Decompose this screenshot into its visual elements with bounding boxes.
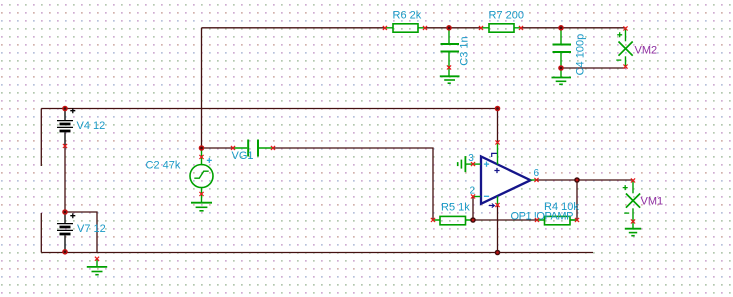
pin mark ground x=97 xyxy=(95,257,99,261)
pin mark R7 left xyxy=(479,26,483,30)
ground under VG1 xyxy=(191,194,212,211)
pin mark R6 left xyxy=(383,26,387,30)
junction node V4 plus xyxy=(62,106,68,112)
pin mark VM1 minus xyxy=(631,219,635,223)
wire main rail y=108.5 xyxy=(41,108,497,110)
wire C2 input y=148 xyxy=(202,147,234,149)
wire inverting input xyxy=(472,197,474,221)
svg-text:V4 12: V4 12 xyxy=(77,120,106,132)
junction node C3 top xyxy=(446,25,452,31)
junction node inverting input xyxy=(470,217,476,223)
svg-text:R6 2k: R6 2k xyxy=(393,10,422,22)
generator VG1 xyxy=(190,148,213,194)
pin mark R4 left xyxy=(535,218,539,222)
pin mark C2 right xyxy=(271,146,275,150)
pin mark op-amp pin 3 xyxy=(471,162,475,166)
op-amp pin 2 lead xyxy=(470,186,481,197)
op-amp negative supply lead pin 4 xyxy=(497,196,499,205)
wire positive supply x=497.5 xyxy=(497,109,499,143)
junction node C4 bottom xyxy=(558,65,564,71)
ground on bottom rail at x=97 xyxy=(87,259,107,275)
resistor R7 xyxy=(481,10,524,32)
voltmeter VM2 xyxy=(616,29,657,67)
junction node positive supply xyxy=(495,106,501,112)
svg-text:VG1: VG1 xyxy=(232,150,254,162)
svg-text:C3 1n: C3 1n xyxy=(458,36,470,65)
pin mark VM2 plus xyxy=(623,26,627,30)
pin mark V4 bottom xyxy=(63,144,67,148)
op-amp pin 6 lead xyxy=(531,168,540,180)
wire negative supply x=497.5 xyxy=(497,205,499,253)
pin mark VG1 top xyxy=(199,155,203,159)
wire bottom rail y=252.5 xyxy=(41,252,593,254)
pin mark R7 right xyxy=(519,26,523,30)
pin mark op-amp pin 4 xyxy=(495,203,499,207)
wire C2 to R5 xyxy=(273,148,433,220)
wire left rail upper segment xyxy=(40,109,42,167)
svg-text:R5 1k: R5 1k xyxy=(441,202,470,214)
pin mark VM2 minus xyxy=(623,65,627,69)
op-amp pin 3 lead xyxy=(465,153,480,164)
junction node C4 top xyxy=(558,25,564,31)
pin mark R4 right xyxy=(575,218,579,222)
svg-text:C2 47k: C2 47k xyxy=(146,160,181,172)
capacitor C3 xyxy=(441,28,471,68)
ground under C3 xyxy=(440,68,460,83)
svg-text:V7 12: V7 12 xyxy=(77,223,106,235)
junction node VG1 input xyxy=(199,145,205,151)
svg-text:6: 6 xyxy=(534,168,540,179)
pin mark op-amp pin 2 xyxy=(471,194,475,198)
capacitor C4 xyxy=(553,28,587,75)
wire left rail lower segment xyxy=(40,213,42,253)
pin mark op-amp pin 6 xyxy=(534,178,538,182)
capacitor C2 xyxy=(146,140,274,172)
op-amp positive supply lead pin 7 xyxy=(497,143,499,165)
voltmeter VM1 xyxy=(623,181,663,222)
resistor R4 xyxy=(537,201,579,225)
junction node V7 minus xyxy=(62,249,68,255)
pin mark VM1 plus xyxy=(631,178,635,182)
wire top rail y=28 xyxy=(202,27,626,29)
wire V7 plus to ground xyxy=(65,212,97,253)
pin mark R5 left xyxy=(431,218,435,222)
junction node output xyxy=(574,177,580,183)
wire output y=180 xyxy=(537,179,634,181)
wire VM2 minus y=68 xyxy=(561,67,626,69)
ground under C4 xyxy=(552,68,572,84)
wire feedback x=577 xyxy=(570,180,577,220)
junction node V7 plus xyxy=(62,209,68,215)
svg-text:OP1 !OPAMP: OP1 !OPAMP xyxy=(511,211,574,223)
op-amp OP1 xyxy=(481,153,573,222)
ground at pin 3 xyxy=(458,156,466,172)
pin mark VG1 bottom xyxy=(199,192,203,196)
pin mark op-amp pin 7 xyxy=(495,140,499,144)
battery V4 xyxy=(57,108,105,146)
junction node negative supply xyxy=(495,250,501,256)
pin mark C2 left xyxy=(231,146,235,150)
svg-text:C4 100p: C4 100p xyxy=(575,34,587,76)
wire vertical x=201.5 xyxy=(201,28,203,148)
pin mark R6 right xyxy=(423,26,427,30)
resistor R5 xyxy=(433,202,473,225)
wire R5 to R4 y=220 xyxy=(473,219,537,221)
svg-text:VM1: VM1 xyxy=(641,196,664,208)
svg-text:VM2: VM2 xyxy=(635,44,658,56)
battery V7 xyxy=(57,212,106,251)
wire battery link x=65 xyxy=(64,146,66,212)
svg-text:R7 200: R7 200 xyxy=(489,10,524,22)
resistor R6 xyxy=(385,10,425,32)
ground under VM1 xyxy=(625,222,641,236)
pin mark C3 bottom xyxy=(447,65,451,69)
